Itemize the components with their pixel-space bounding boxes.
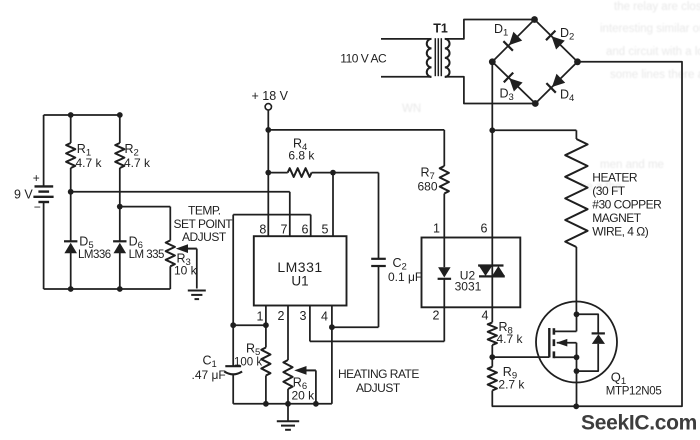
resistor R7 680: [418, 166, 449, 238]
svg-text:the relay are closed an: the relay are closed an: [614, 1, 700, 13]
node pin4-C2 junction: [329, 324, 335, 330]
svg-text:2: 2: [278, 309, 285, 323]
node DC+ branch to heater: [489, 127, 495, 133]
wire bridge right node to right rail: [492, 62, 682, 407]
U2 pin 1 label: [433, 222, 440, 236]
svg-text:1: 1: [257, 310, 264, 324]
svg-text:7: 7: [281, 223, 288, 237]
svg-text:HEATING RATE: HEATING RATE: [338, 367, 419, 381]
svg-text:4.7 k: 4.7 k: [497, 332, 524, 346]
node +18V branch to R7: [265, 127, 271, 133]
wire bottom-left rail (battery minus): [44, 288, 171, 290]
pin 6 label: [302, 223, 309, 237]
+18V supply terminal: [252, 89, 289, 236]
wire R2/D6 node to R3 top: [120, 207, 171, 241]
node R2-D6 junction: [117, 204, 123, 210]
wire gate: [492, 356, 549, 358]
wire U1 pin 3 to U2 pin 2: [310, 306, 444, 342]
ground below R3 wiper: [188, 291, 206, 300]
svg-text:LM336: LM336: [78, 249, 111, 261]
potentiometer R6 20k: [283, 306, 315, 404]
svg-text:U1: U1: [291, 274, 308, 289]
resistor R2 4.7k: [115, 115, 151, 207]
resistor R8 4.7k: [488, 307, 524, 357]
pin 8 label: [259, 223, 266, 237]
wire pin 4 to C2 bottom: [332, 266, 379, 327]
svg-text:5: 5: [322, 223, 329, 237]
Q1 body diode: [577, 314, 606, 371]
svg-text:9 V: 9 V: [14, 188, 33, 202]
svg-text:3: 3: [300, 309, 307, 323]
battery B1 9V: [14, 115, 54, 289]
U2 pin 2 label: [433, 309, 440, 323]
svg-text:WIRE, 4 Ω): WIRE, 4 Ω): [592, 225, 648, 239]
node bridge bottom: [532, 100, 539, 107]
wire DC+ to heater top: [492, 130, 576, 139]
svg-text:MTP12N05: MTP12N05: [606, 386, 662, 398]
diode D1: [494, 22, 522, 51]
node bridge left: [489, 58, 496, 65]
phototriac inside U2: [478, 238, 505, 308]
label 110 V AC: [340, 52, 387, 66]
optocoupler U2 3031 box: [422, 238, 521, 308]
resistor R1 4.7k: [66, 115, 102, 192]
diode D2: [546, 26, 574, 50]
node R1-D5 junction: [68, 189, 74, 195]
node R4-pin5 junction: [330, 170, 336, 176]
svg-text:6: 6: [481, 222, 488, 236]
node R1-top junction: [68, 112, 74, 118]
Q1 body arrow branch: [556, 339, 576, 357]
node D6-bottom junction: [117, 286, 123, 292]
svg-text:6.8 k: 6.8 k: [288, 149, 315, 163]
svg-text:(30 FT: (30 FT: [592, 184, 626, 198]
node pin1 junction: [263, 322, 269, 328]
svg-text:4: 4: [482, 309, 489, 323]
Q1 source connection: [554, 356, 577, 358]
wire R4 right to C2 top: [333, 173, 379, 259]
svg-text:680: 680: [418, 180, 438, 194]
svg-text:.47 μF: .47 μF: [192, 368, 226, 382]
node D5-bottom junction: [68, 286, 74, 292]
svg-text:ADJUST: ADJUST: [182, 230, 227, 244]
svg-text:2: 2: [433, 309, 440, 323]
wire R1/D5 node to U1 pin 7: [71, 192, 290, 236]
svg-text:4: 4: [321, 310, 328, 324]
svg-text:T1: T1: [433, 22, 448, 36]
wire top-left rail: [44, 114, 120, 116]
R6 wiper arrow: [294, 366, 316, 404]
pin 7 label: [281, 223, 288, 237]
label heating rate adjust: [338, 367, 419, 395]
node +18V branch to R4: [265, 170, 271, 176]
wire pin 1 stub: [265, 306, 267, 326]
svg-text:LM 335: LM 335: [129, 249, 164, 261]
resistor R4 6.8k: [268, 137, 333, 178]
svg-text:TEMP.: TEMP.: [188, 204, 221, 218]
transformer T1: [427, 22, 450, 77]
diode D4: [546, 74, 574, 104]
svg-text:SeekIC.com: SeekIC.com: [581, 412, 697, 435]
Q1 label: [606, 370, 662, 398]
wire T1 secondary bottom to bridge: [445, 77, 536, 104]
node C1-top junction: [230, 322, 236, 328]
wire pin5 stub: [332, 173, 334, 237]
svg-text:+: +: [33, 171, 40, 185]
svg-text:interesting similar outp: interesting similar outp: [600, 23, 700, 35]
svg-text:2.7 k: 2.7 k: [498, 378, 525, 392]
svg-text:20 k: 20 k: [292, 389, 316, 403]
svg-text:10 k: 10 k: [174, 264, 198, 278]
resistor R9 2.7k: [488, 357, 526, 406]
resistor R5 100k: [234, 325, 271, 404]
transistor Q1 body circle: [536, 302, 617, 383]
node Q1 source-diode dot: [574, 368, 580, 374]
pin 1 label: [257, 310, 264, 324]
Q1 gate bar: [548, 328, 550, 357]
node Q1 source dot: [574, 354, 580, 360]
svg-text:HEATER: HEATER: [592, 171, 638, 185]
resistor HEATER: [565, 139, 662, 314]
wire Q1 source to rail: [576, 357, 578, 406]
node R5-rail junction: [263, 401, 269, 407]
svg-text:100 k: 100 k: [234, 357, 262, 369]
watermark SeekIC.com: [581, 412, 697, 435]
node R8-R9-gate junction: [489, 354, 495, 360]
wire bridge left node down to U2 pin 6: [491, 62, 493, 238]
svg-text:0.1 μF: 0.1 μF: [388, 270, 422, 284]
U2 pin 4 label: [482, 309, 489, 323]
svg-text:some lines there at: some lines there at: [610, 69, 700, 81]
wire T1 secondary top to bridge: [445, 20, 535, 39]
wire pin6 net to pin 1: [233, 324, 266, 326]
wire U1 pin 4 down: [331, 306, 333, 404]
svg-text:8: 8: [259, 223, 266, 237]
node R2-top junction: [117, 112, 123, 118]
capacitor C2 0.1uF: [371, 256, 422, 284]
svg-text:4.7 k: 4.7 k: [124, 156, 151, 170]
node Q1 drain dot: [574, 311, 580, 317]
svg-text:and circuit with a low: and circuit with a low: [606, 46, 700, 58]
svg-text:3031: 3031: [455, 280, 482, 294]
svg-text:+ 18 V: + 18 V: [252, 89, 289, 103]
diode D3: [500, 73, 523, 103]
label temp set point adjust: [174, 204, 234, 245]
R3 wiper arrow: [176, 244, 197, 288]
svg-text:ADJUST: ADJUST: [356, 381, 401, 395]
svg-text:6: 6: [302, 223, 309, 237]
svg-text:−: −: [34, 200, 41, 214]
svg-text:men and me: men and me: [600, 159, 664, 171]
Q1 drain connection: [554, 314, 577, 331]
svg-text:1: 1: [433, 222, 440, 236]
op-amp U1 LM331 box: [254, 236, 347, 305]
pin 2 label: [278, 309, 285, 323]
svg-text:4.7 k: 4.7 k: [76, 156, 103, 170]
pin 4 label: [321, 310, 328, 324]
Q1 channel segments: [553, 328, 556, 358]
LED inside U2: [438, 238, 452, 308]
pin 3 label: [300, 309, 307, 323]
node bridge top: [531, 16, 538, 23]
node wiper-rail junction: [313, 401, 319, 407]
svg-text:SET POINT: SET POINT: [174, 217, 234, 231]
svg-text:#30 COPPER: #30 COPPER: [592, 198, 662, 212]
capacitor C1 .47uF: [192, 325, 243, 404]
node R6-rail junction: [285, 401, 291, 407]
wire AC primary leads: [381, 39, 428, 77]
U2 pin 6 label: [481, 222, 488, 236]
svg-text:110 V AC: 110 V AC: [340, 52, 387, 66]
wire U1 pin 6 to C1/pin1 net: [233, 215, 311, 326]
diode D6 LM335: [113, 207, 164, 289]
svg-text:WN: WN: [402, 103, 421, 115]
wire +18V to R7: [268, 130, 444, 166]
diode D5 LM336: [64, 192, 111, 289]
wire bottom ground rail left: [233, 403, 332, 405]
node bridge right: [574, 58, 581, 65]
wire bridge edges: [492, 20, 577, 104]
ground below rail: [277, 404, 299, 430]
potentiometer R3 10k: [166, 240, 198, 289]
pin 5 label: [322, 223, 329, 237]
svg-text:MAGNET: MAGNET: [592, 211, 642, 225]
node source-rail junction: [573, 403, 579, 409]
